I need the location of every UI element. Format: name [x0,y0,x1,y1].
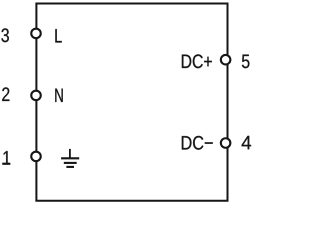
pin number 5 [242,55,250,69]
label L (line) [55,29,61,42]
wire: top horizontal [35,3,228,5]
ground (protective earth symbol) [61,149,79,167]
wire: bottom horizontal [35,200,228,202]
terminal 4 (DC-) [221,138,231,148]
wire: left vertical bus (AC input side) [35,4,37,201]
pin number 2 [2,87,9,101]
terminal 5 (DC+) [221,55,231,64]
pin number 4 [242,136,251,149]
label N (neutral) [55,89,62,102]
wire: right vertical bus (DC output side) [227,4,229,201]
terminal 2 (N) [31,91,41,101]
serif base of pin number 1 [2,163,9,165]
label DC+ [182,54,212,68]
terminal 1 (PE) [31,152,41,162]
pin number 1 [3,151,10,164]
pin number 3 [1,28,8,42]
terminal 3 (L) [31,29,41,39]
label DC minus [182,136,213,150]
